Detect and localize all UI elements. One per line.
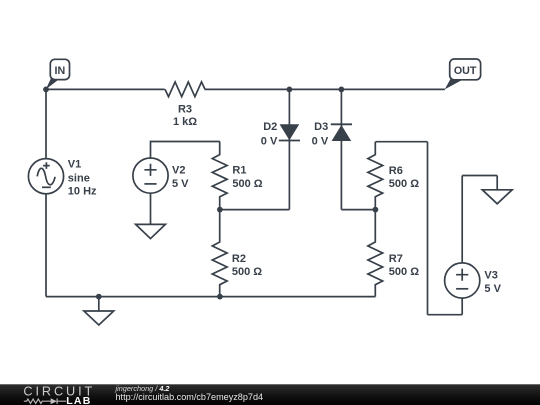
diode D2 cathode bar	[279, 140, 300, 142]
svg-text:5 V: 5 V	[484, 283, 501, 295]
junction dot bottom ground node	[96, 294, 102, 300]
svg-text:V1: V1	[68, 159, 81, 171]
wire mid net left: R1/R2 junction to D2 bottom	[220, 209, 290, 211]
wire: D3 branch vertical	[340, 89, 342, 209]
wire bottom net: V1 bottom across to R7 bottom	[46, 296, 375, 298]
wire: V3 bottom row horizontal	[428, 314, 463, 316]
svg-text:D2: D2	[263, 121, 277, 133]
ground under V2	[136, 224, 166, 238]
diode D3 cathode bar	[331, 123, 352, 125]
V3 plus sign	[456, 269, 468, 281]
svg-text:500 Ω: 500 Ω	[232, 178, 262, 190]
resistor R1 zigzag	[212, 142, 227, 210]
net flag IN box	[50, 59, 69, 79]
wire mid net right: D3 bottom to R6/R7 junction	[341, 209, 375, 211]
svg-text:sine: sine	[68, 172, 90, 184]
wire: D2 branch vertical	[288, 89, 290, 209]
wire: V3 top stem up to ground row	[461, 176, 463, 263]
resistor R7 zigzag	[368, 210, 383, 297]
V2 plus sign	[144, 164, 156, 176]
diode D3 triangle (pointing up)	[332, 125, 352, 141]
junction dot R2 bottom node	[217, 294, 223, 300]
V1 minus sign	[42, 186, 51, 188]
V1 sine symbol	[37, 168, 55, 184]
voltage source V3 body circle	[445, 263, 480, 298]
svg-text:R3: R3	[178, 104, 192, 116]
wire: V2 top terminal up to corner	[151, 142, 220, 159]
junction dot R6/R7 node	[373, 207, 379, 213]
svg-text:OUT: OUT	[454, 65, 477, 77]
svg-text:IN: IN	[55, 65, 66, 77]
wire: R6 top corner across to right vertical	[375, 141, 427, 143]
junction dot D2 top	[287, 87, 293, 93]
svg-text:R2: R2	[232, 253, 246, 265]
ground on bottom net	[84, 311, 114, 325]
diode D2 triangle (pointing down)	[280, 124, 300, 140]
svg-text:500 Ω: 500 Ω	[389, 266, 419, 278]
wire top net: R3 right lead to OUT tail	[205, 88, 445, 90]
svg-text:1 kΩ: 1 kΩ	[173, 116, 197, 128]
wire: bottom-left ground stem	[98, 297, 100, 311]
voltage source V1 body circle	[28, 159, 63, 194]
V2 minus sign	[144, 183, 156, 185]
svg-text:D3: D3	[314, 121, 328, 133]
svg-text:V2: V2	[172, 165, 185, 177]
net flag OUT tail	[445, 79, 464, 90]
resistor R6 zigzag	[368, 142, 383, 210]
CircuitLab logo resistor-diode glyph	[24, 399, 51, 403]
svg-text:500 Ω: 500 Ω	[232, 266, 262, 278]
junction dot R1/R2 node	[217, 207, 223, 213]
wire: right ground stem	[496, 176, 498, 190]
svg-text:LAB: LAB	[66, 395, 91, 405]
net flag IN tail	[46, 79, 59, 90]
svg-text:R7: R7	[389, 253, 403, 265]
wire top net: IN corner to R3 left lead	[46, 88, 165, 90]
wire: ground row horizontal right of V3	[462, 175, 497, 177]
resistor R2 zigzag	[212, 210, 227, 297]
svg-text:http://circuitlab.com/cb7emeyz: http://circuitlab.com/cb7emeyz8p7d4	[116, 392, 264, 402]
svg-text:R6: R6	[389, 165, 403, 177]
wire left branch: V1 bottom terminal down to bottom net	[45, 194, 47, 297]
footer bar	[0, 384, 540, 405]
wire right vertical: R6 top net down to V3 bottom row	[427, 142, 429, 315]
V3 minus sign	[456, 288, 468, 290]
junction dot D3 top	[339, 87, 345, 93]
svg-text:0 V: 0 V	[261, 135, 278, 147]
V1 plus sign	[43, 162, 50, 169]
svg-text:0 V: 0 V	[312, 135, 329, 147]
net flag OUT box	[450, 59, 481, 80]
junction dot IN node	[43, 87, 49, 93]
wire: V3 bottom stem	[461, 298, 463, 315]
svg-text:500 Ω: 500 Ω	[389, 178, 419, 190]
svg-text:V3: V3	[484, 269, 497, 281]
wire: V2 bottom terminal down to ground stem	[150, 193, 152, 224]
voltage source V2 body circle	[133, 158, 168, 193]
svg-text:5 V: 5 V	[172, 178, 189, 190]
svg-text:10 Hz: 10 Hz	[68, 185, 97, 197]
svg-text:R1: R1	[232, 165, 246, 177]
wire left branch: top node down to V1 top terminal	[45, 89, 47, 158]
ground right of V3	[482, 190, 512, 204]
resistor R3 zigzag	[165, 82, 205, 97]
